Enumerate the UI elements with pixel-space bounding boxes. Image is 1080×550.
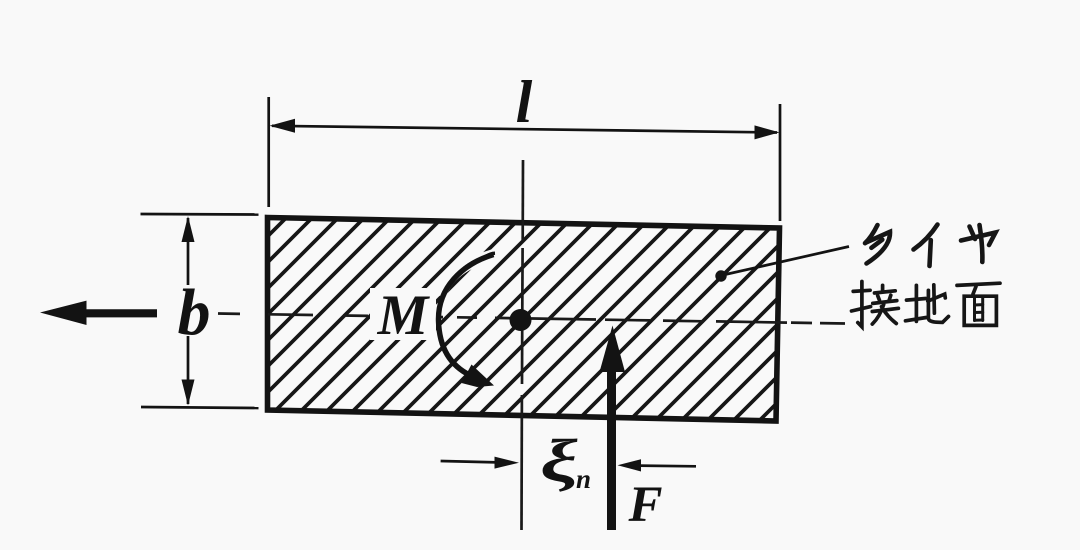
svg-text:b: b xyxy=(178,276,211,349)
annotation katakana I xyxy=(914,225,938,267)
xi_n dimension: left-pointing arrow xyxy=(638,464,696,467)
xi_n dimension: right-pointing arrow xyxy=(441,461,497,462)
dimension b: dimension line xyxy=(187,218,190,285)
white halo behind M xyxy=(370,288,436,340)
annotation kanji CHI (ground) xyxy=(906,285,949,323)
white halo along moment arc upper part xyxy=(441,255,494,297)
horizontal dashed centre line xyxy=(218,314,845,324)
svg-text:M: M xyxy=(377,284,431,347)
thick lateral force arrow (left) xyxy=(40,301,157,325)
dimension b: top tick xyxy=(141,213,259,216)
moment arc arrowhead xyxy=(462,365,495,388)
moment arc thick crescent xyxy=(450,255,493,284)
leader line to annotation xyxy=(723,247,849,276)
dimension l: left arrowhead xyxy=(270,119,296,133)
dimension b: down arrowhead xyxy=(182,380,195,406)
svg-text:ξ: ξ xyxy=(540,428,578,495)
contact patch rectangle outline xyxy=(268,218,780,422)
force arrow F (up) : head xyxy=(600,326,626,373)
dimension l: dimension line xyxy=(272,126,777,133)
centre dot xyxy=(510,309,532,331)
annotation kanji SETSU (contact) xyxy=(852,282,899,327)
dimension b: up arrowhead xyxy=(182,216,195,242)
svg-text:F: F xyxy=(627,477,662,533)
dimension l: left extension line xyxy=(267,97,270,207)
leader dot inside patch xyxy=(715,270,726,281)
svg-text:n: n xyxy=(576,464,591,494)
dimension l: right arrowhead xyxy=(755,125,780,139)
moment arc M xyxy=(438,255,493,376)
svg-text:l: l xyxy=(516,69,533,135)
dimension l: right extension line xyxy=(779,104,782,221)
moment arc start flick xyxy=(482,253,495,260)
vertical centre line xyxy=(522,160,524,530)
annotation katakana TA xyxy=(865,225,890,264)
force arrow F : shaft xyxy=(607,370,616,530)
annotation kanji MEN (surface) xyxy=(957,283,1000,325)
dimension b: bottom tick xyxy=(141,407,259,408)
annotation katakana YA xyxy=(961,225,996,262)
